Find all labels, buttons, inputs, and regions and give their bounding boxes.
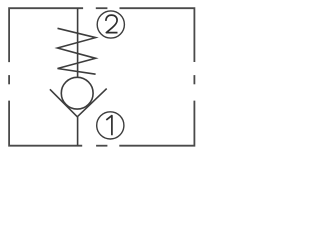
port 1 circle [97, 112, 124, 139]
cartridge envelope left middle dash [8, 75, 10, 84]
spring [58, 28, 96, 74]
check ball [61, 77, 93, 109]
cartridge envelope top middle dash [96, 7, 108, 9]
wire port 2 stem [77, 8, 79, 77]
cartridge envelope bottom middle dash [96, 145, 107, 147]
cartridge envelope bottom-left corner dash [9, 101, 82, 146]
wire port 1 stem [77, 117, 79, 146]
port 2 circle [97, 11, 124, 38]
cartridge envelope top-left corner dash [9, 8, 83, 62]
valve seat V [50, 89, 107, 117]
port 1 label [106, 116, 112, 136]
cartridge envelope top-right corner dash [120, 8, 195, 62]
port 2 label [106, 15, 118, 32]
cartridge envelope right middle dash [193, 75, 195, 84]
cartridge envelope bottom-right corner dash [119, 101, 194, 146]
